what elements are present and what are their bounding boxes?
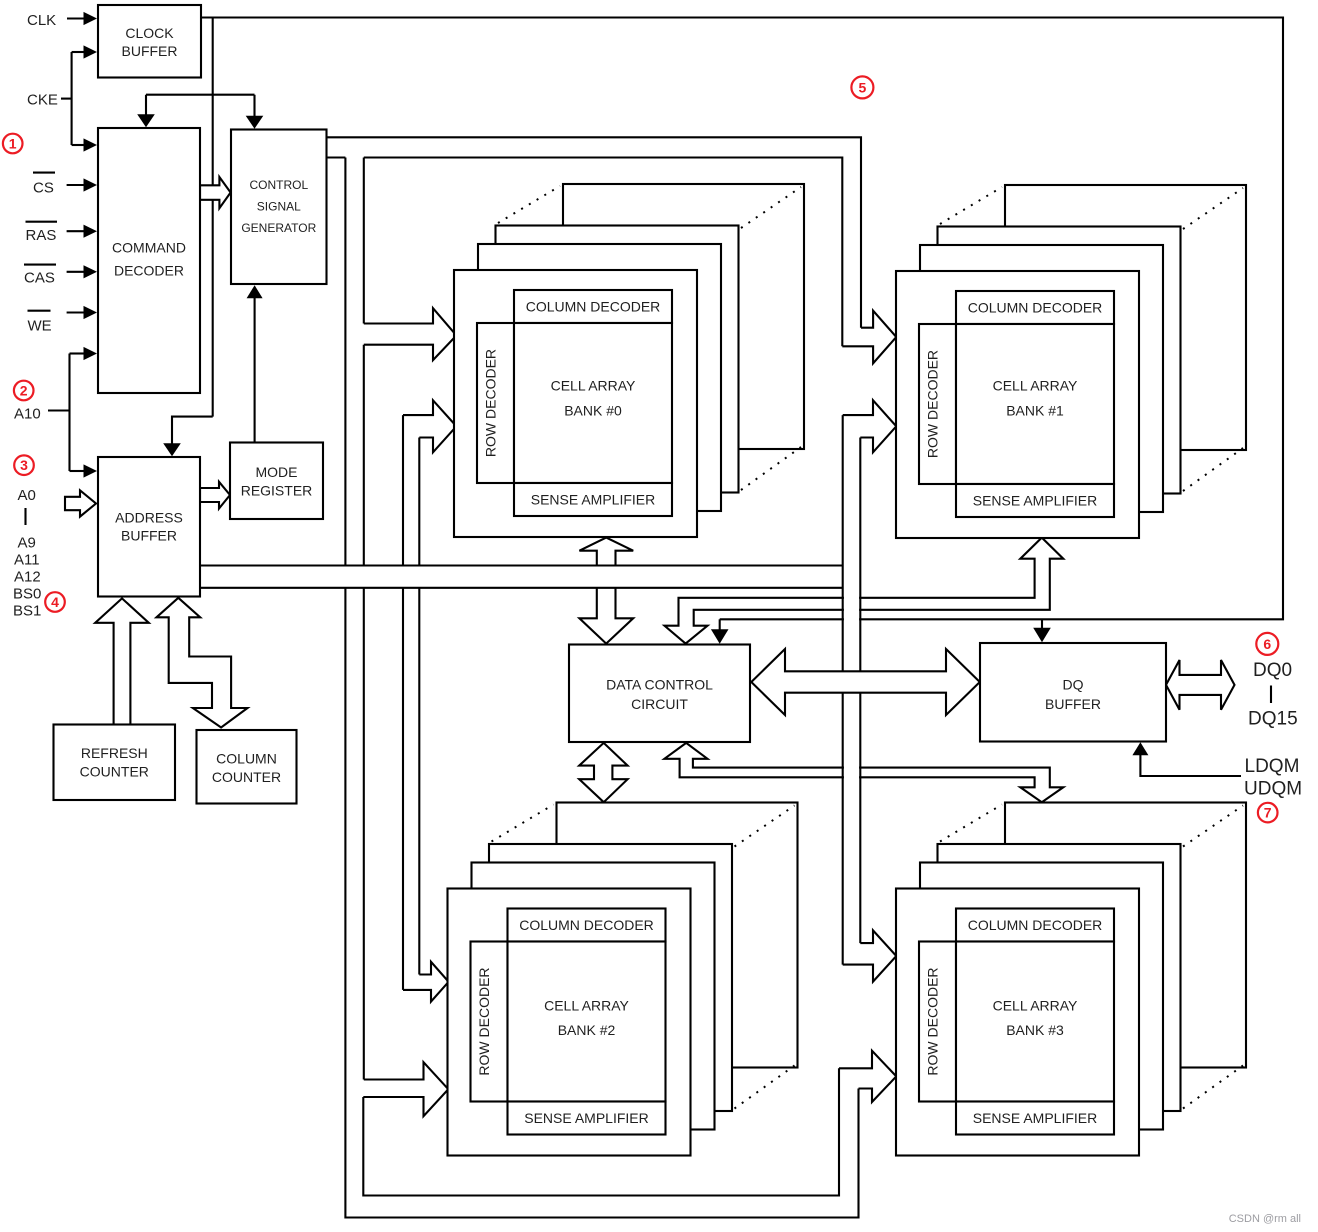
overline RAS [26, 221, 58, 223]
svg-text:3: 3 [20, 457, 28, 473]
svg-text:DQ15: DQ15 [1248, 709, 1298, 730]
bank #3 row decoder box [919, 942, 956, 1102]
svg-text:CELL ARRAY: CELL ARRAY [544, 998, 629, 1014]
svg-text:UDQM: UDQM [1244, 779, 1302, 800]
svg-text:BANK #3: BANK #3 [1006, 1022, 1064, 1038]
svg-text:CLK: CLK [27, 12, 56, 29]
control signal generator box [231, 130, 327, 285]
block arrow refresh counter to address buffer [95, 598, 149, 724]
cell array bank #2 layer 3 [489, 844, 732, 1111]
svg-text:COLUMN DECODER: COLUMN DECODER [519, 917, 654, 933]
svg-text:6: 6 [1263, 636, 1271, 652]
wire A10 vertical [68, 354, 70, 472]
arrowhead A10 into command decoder [84, 347, 98, 360]
cell array bank #0 front box [454, 270, 697, 537]
wire CKE into command decoder [72, 144, 85, 146]
wire CLK input [67, 17, 85, 19]
svg-text:SENSE AMPLIFIER: SENSE AMPLIFIER [973, 1110, 1097, 1126]
svg-text:COLUMN DECODER: COLUMN DECODER [968, 917, 1103, 933]
bank #0 dotted ellipsis bottom-right [741, 447, 801, 490]
double block arrow data control to DQ buffer [751, 649, 980, 715]
arrowhead RAS into command decoder [84, 225, 98, 238]
bank #2 column decoder box [508, 909, 666, 942]
cell array bank #2 layer 2 [472, 863, 715, 1130]
red circled number 6 [1256, 633, 1278, 655]
wire BUS-B right vertical mid [363, 345, 365, 566]
svg-text:A0: A0 [18, 487, 36, 504]
svg-text:LDQM: LDQM [1245, 756, 1300, 777]
row address bus band left edge [842, 415, 844, 965]
bank #1 dotted ellipsis bottom-right [1183, 448, 1243, 491]
bank #3 dotted ellipsis bottom-right [1183, 1066, 1243, 1109]
double block arrow data control to bank #1 sense amplifier [665, 538, 1064, 644]
red circled number 7 [1258, 803, 1278, 823]
wire CS into command decoder [67, 184, 85, 186]
svg-text:DQ0: DQ0 [1253, 660, 1292, 681]
svg-text:SIGNAL: SIGNAL [257, 200, 301, 214]
wire CKE into clock buffer [72, 51, 85, 53]
double block arrow DQ buffer to DQ pins [1166, 660, 1235, 710]
wire BUS-B right vertical below band [363, 588, 365, 1080]
svg-text:A12: A12 [14, 569, 41, 586]
block arrow into bank #3 row decoder lower [839, 1051, 896, 1102]
svg-text:CONTROL: CONTROL [249, 178, 308, 192]
wire BUS-A bottom edge segment 2 and left vertical [364, 158, 843, 347]
cell array bank #3 back layer [1005, 803, 1246, 1068]
red circled number 2 [14, 381, 34, 401]
address buffer box [98, 457, 200, 597]
wire clock into address buffer [172, 417, 213, 445]
svg-text:BUFFER: BUFFER [122, 43, 178, 59]
wire RAS into command decoder [67, 230, 85, 232]
wire clock to command decoder and CSG tops [146, 95, 255, 118]
arrowhead WE into command decoder [84, 306, 98, 319]
wire LDQM UDQM into DQ buffer [1140, 752, 1241, 776]
block arrow A0-BS1 into address buffer [65, 490, 96, 516]
cell array bank #0 layer 2 [478, 244, 721, 511]
wire WE into command decoder [67, 311, 85, 313]
wire A10 stub [48, 409, 70, 411]
cell array bank #0 layer 3 [496, 226, 739, 493]
bank #2 dotted ellipsis bottom-right [735, 1066, 795, 1109]
svg-text:BANK #2: BANK #2 [558, 1022, 616, 1038]
arrowhead mode register line into CSG bottom [247, 285, 263, 298]
wire BUS-C right vertical upper [418, 438, 420, 566]
svg-text:SENSE AMPLIFIER: SENSE AMPLIFIER [531, 492, 655, 508]
red circled number 3 [14, 455, 34, 475]
svg-text:CSDN @rm all: CSDN @rm all [1229, 1213, 1301, 1225]
refresh counter box [54, 725, 176, 801]
bank #3 cell array box [956, 942, 1114, 1102]
bank #2 dotted ellipsis top-left [492, 805, 554, 842]
block arrow address bus up into bank #0 sense amplifier [579, 538, 633, 566]
svg-text:SENSE AMPLIFIER: SENSE AMPLIFIER [524, 1110, 648, 1126]
svg-text:ADDRESS: ADDRESS [115, 510, 183, 526]
arrowhead CLK into clock buffer [84, 12, 98, 25]
svg-text:A10: A10 [14, 406, 41, 423]
wire CKE vertical [71, 52, 73, 145]
bank #1 sense amplifier box [956, 484, 1114, 517]
svg-text:1: 1 [9, 136, 17, 152]
arrowhead clock into address buffer top [163, 443, 181, 456]
bank #3 column decoder box [956, 909, 1114, 942]
wire BUS-B left vertical upper [344, 158, 346, 566]
svg-text:COLUMN DECODER: COLUMN DECODER [526, 299, 661, 315]
svg-text:4: 4 [51, 594, 59, 610]
bank #1 cell array box [956, 324, 1114, 484]
block arrow address buffer to mode register [200, 482, 230, 509]
arrowhead CAS into command decoder [84, 265, 98, 278]
wire clock drop into DQ buffer [1041, 619, 1043, 632]
arrowhead A10 into address buffer [84, 464, 98, 477]
cell array bank #1 front box [896, 271, 1139, 538]
bank #2 sense amplifier box [508, 1102, 666, 1135]
wire CKE stub [61, 98, 72, 100]
svg-text:COUNTER: COUNTER [212, 769, 281, 785]
wire A10 into command decoder [70, 352, 86, 354]
svg-text:A11: A11 [14, 552, 40, 569]
svg-text:ROW DECODER: ROW DECODER [925, 967, 941, 1075]
block arrow into bank #1 row decoder from CSG bus [842, 311, 896, 364]
bank #2 row decoder box [471, 942, 508, 1102]
double block arrow data control to bank #3 stack [664, 743, 1063, 802]
overline WE [28, 310, 51, 312]
svg-text:DQ: DQ [1063, 677, 1084, 693]
svg-text:CELL ARRAY: CELL ARRAY [551, 378, 636, 394]
double block arrow address buffer to column counter [157, 598, 248, 728]
row address bus vertical band white core [844, 438, 859, 944]
svg-text:ROW DECODER: ROW DECODER [483, 349, 499, 457]
cell array bank #3 front box [896, 889, 1139, 1156]
svg-text:BUFFER: BUFFER [121, 528, 177, 544]
cell array bank #1 back layer [1005, 185, 1246, 450]
wire clock branch vertical [212, 18, 214, 417]
svg-text:COLUMN DECODER: COLUMN DECODER [968, 300, 1103, 316]
cell array bank #2 back layer [557, 803, 798, 1068]
bank #1 row decoder box [919, 324, 956, 484]
svg-text:SENSE AMPLIFIER: SENSE AMPLIFIER [973, 493, 1097, 509]
wire BUS-C left vertical upper [402, 415, 404, 565]
svg-text:ROW DECODER: ROW DECODER [925, 350, 941, 458]
svg-text:DECODER: DECODER [114, 263, 184, 279]
wire clock drop into data control circuit [719, 619, 721, 633]
svg-text:CLOCK: CLOCK [125, 25, 174, 41]
wire A10 into address buffer [70, 470, 86, 472]
svg-text:CIRCUIT: CIRCUIT [631, 696, 688, 712]
wire BUS-C left vertical lower [402, 588, 404, 990]
arrowhead clock into data control top [711, 629, 729, 644]
block arrow into bank #2 row decoder lower [363, 1062, 448, 1116]
block arrow address bus down into data control circuit [579, 588, 633, 644]
bank #0 sense amplifier box [514, 483, 672, 516]
arrowhead clock into CSG top [246, 116, 264, 129]
DQ buffer box [980, 643, 1166, 742]
wire BUS-A top edge from CSG [327, 137, 862, 327]
wire BUS-C right vertical lower [418, 588, 420, 975]
cell array bank #3 layer 3 [938, 844, 1181, 1111]
block arrow into bank #0 row decoder from CSG bus [364, 308, 457, 360]
cell array bank #1 layer 3 [938, 227, 1181, 494]
bank #1 dotted ellipsis top-left [940, 187, 1002, 224]
svg-text:7: 7 [1264, 805, 1272, 821]
wire BUS-B inner bottom run to bank3 [363, 1068, 839, 1195]
block arrow command decoder to control signal generator [200, 177, 231, 208]
arrowhead CKE into clock buffer [84, 45, 98, 58]
arrowhead CKE into command decoder [84, 138, 98, 151]
svg-text:COUNTER: COUNTER [80, 764, 149, 780]
svg-text:CS: CS [33, 180, 54, 197]
arrowhead LDQM into DQ buffer bottom [1132, 742, 1148, 755]
command decoder box [98, 128, 200, 393]
arrowhead clock into command decoder top [137, 114, 155, 127]
cell array bank #2 front box [448, 889, 691, 1156]
svg-text:BANK #1: BANK #1 [1006, 403, 1064, 419]
bank #0 dotted ellipsis top-left [498, 186, 560, 223]
cell array bank #3 layer 2 [920, 863, 1163, 1130]
bank #1 column decoder box [956, 291, 1114, 324]
bank #3 sense amplifier box [956, 1102, 1114, 1135]
double block arrow data control to bank #2 stack [579, 743, 627, 802]
bank #3 dotted ellipsis top-left [940, 805, 1002, 842]
wire clock buffer output to right edge and down to DQ clock line [201, 18, 1283, 620]
label DQ range dash [1270, 686, 1272, 704]
svg-text:COLUMN: COLUMN [216, 751, 277, 767]
bank #0 dotted ellipsis top-right [741, 187, 801, 228]
svg-text:A9: A9 [18, 535, 36, 552]
mode register box [230, 443, 323, 520]
svg-text:BANK #0: BANK #0 [564, 403, 622, 419]
svg-text:REGISTER: REGISTER [241, 483, 313, 499]
cell array bank #0 back layer [563, 184, 804, 449]
overline CAS [24, 264, 56, 266]
svg-text:2: 2 [20, 383, 28, 399]
red circled number 4 [45, 592, 65, 612]
block arrow into bank #0 row decoder from address bus [403, 400, 456, 452]
wire address bus upper from address buffer [200, 564, 843, 566]
bank #0 row decoder box [477, 323, 514, 483]
overline CS [33, 172, 55, 174]
bank #0 column decoder box [514, 290, 672, 323]
block arrow into bank #1 row decoder from address bus [843, 400, 897, 452]
block arrow into bank #2 row decoder upper [403, 962, 449, 1002]
arrowhead clock into DQ buffer top [1033, 628, 1051, 643]
row address bus band right edge [859, 438, 861, 944]
svg-text:ROW DECODER: ROW DECODER [476, 967, 492, 1075]
red circled number 1 [3, 134, 23, 154]
svg-text:RAS: RAS [26, 227, 57, 244]
data control circuit box [569, 645, 750, 743]
column counter box [197, 730, 297, 804]
wire address bus lower from address buffer [200, 587, 843, 589]
red circled number 5 [851, 76, 873, 98]
svg-text:WE: WE [28, 318, 52, 335]
svg-text:DATA CONTROL: DATA CONTROL [606, 677, 713, 693]
wire BUS-A bottom edge segment 1 [327, 156, 346, 158]
bank #2 cell array box [508, 942, 666, 1102]
clock buffer box [98, 5, 201, 78]
svg-text:CELL ARRAY: CELL ARRAY [993, 378, 1078, 394]
block arrow into bank #3 row decoder upper [843, 930, 897, 981]
bank #0 cell array box [514, 323, 672, 483]
bank #1 dotted ellipsis top-right [1183, 188, 1243, 229]
svg-text:BS0: BS0 [13, 586, 41, 603]
svg-text:BUFFER: BUFFER [1045, 696, 1101, 712]
label A0-A9 range dash [24, 508, 26, 525]
svg-text:COMMAND: COMMAND [112, 240, 186, 256]
bank #2 dotted ellipsis top-right [735, 806, 795, 847]
arrowhead CS into command decoder [84, 178, 98, 191]
wire mode register to control signal generator [254, 297, 256, 443]
wire BUS-B right vertical upper [363, 158, 365, 324]
cell array bank #1 layer 2 [920, 245, 1163, 512]
svg-text:GENERATOR: GENERATOR [241, 221, 316, 235]
svg-text:CAS: CAS [24, 270, 55, 287]
svg-text:CKE: CKE [27, 92, 58, 109]
bank #3 dotted ellipsis top-right [1183, 806, 1243, 847]
wire CAS into command decoder [67, 271, 85, 273]
svg-text:REFRESH: REFRESH [81, 745, 148, 761]
svg-text:CELL ARRAY: CELL ARRAY [993, 998, 1078, 1014]
wire BUS-B left vertical lower and bottom run [345, 588, 858, 1218]
svg-text:5: 5 [859, 79, 867, 95]
svg-text:BS1: BS1 [13, 603, 41, 620]
svg-text:MODE: MODE [256, 464, 298, 480]
